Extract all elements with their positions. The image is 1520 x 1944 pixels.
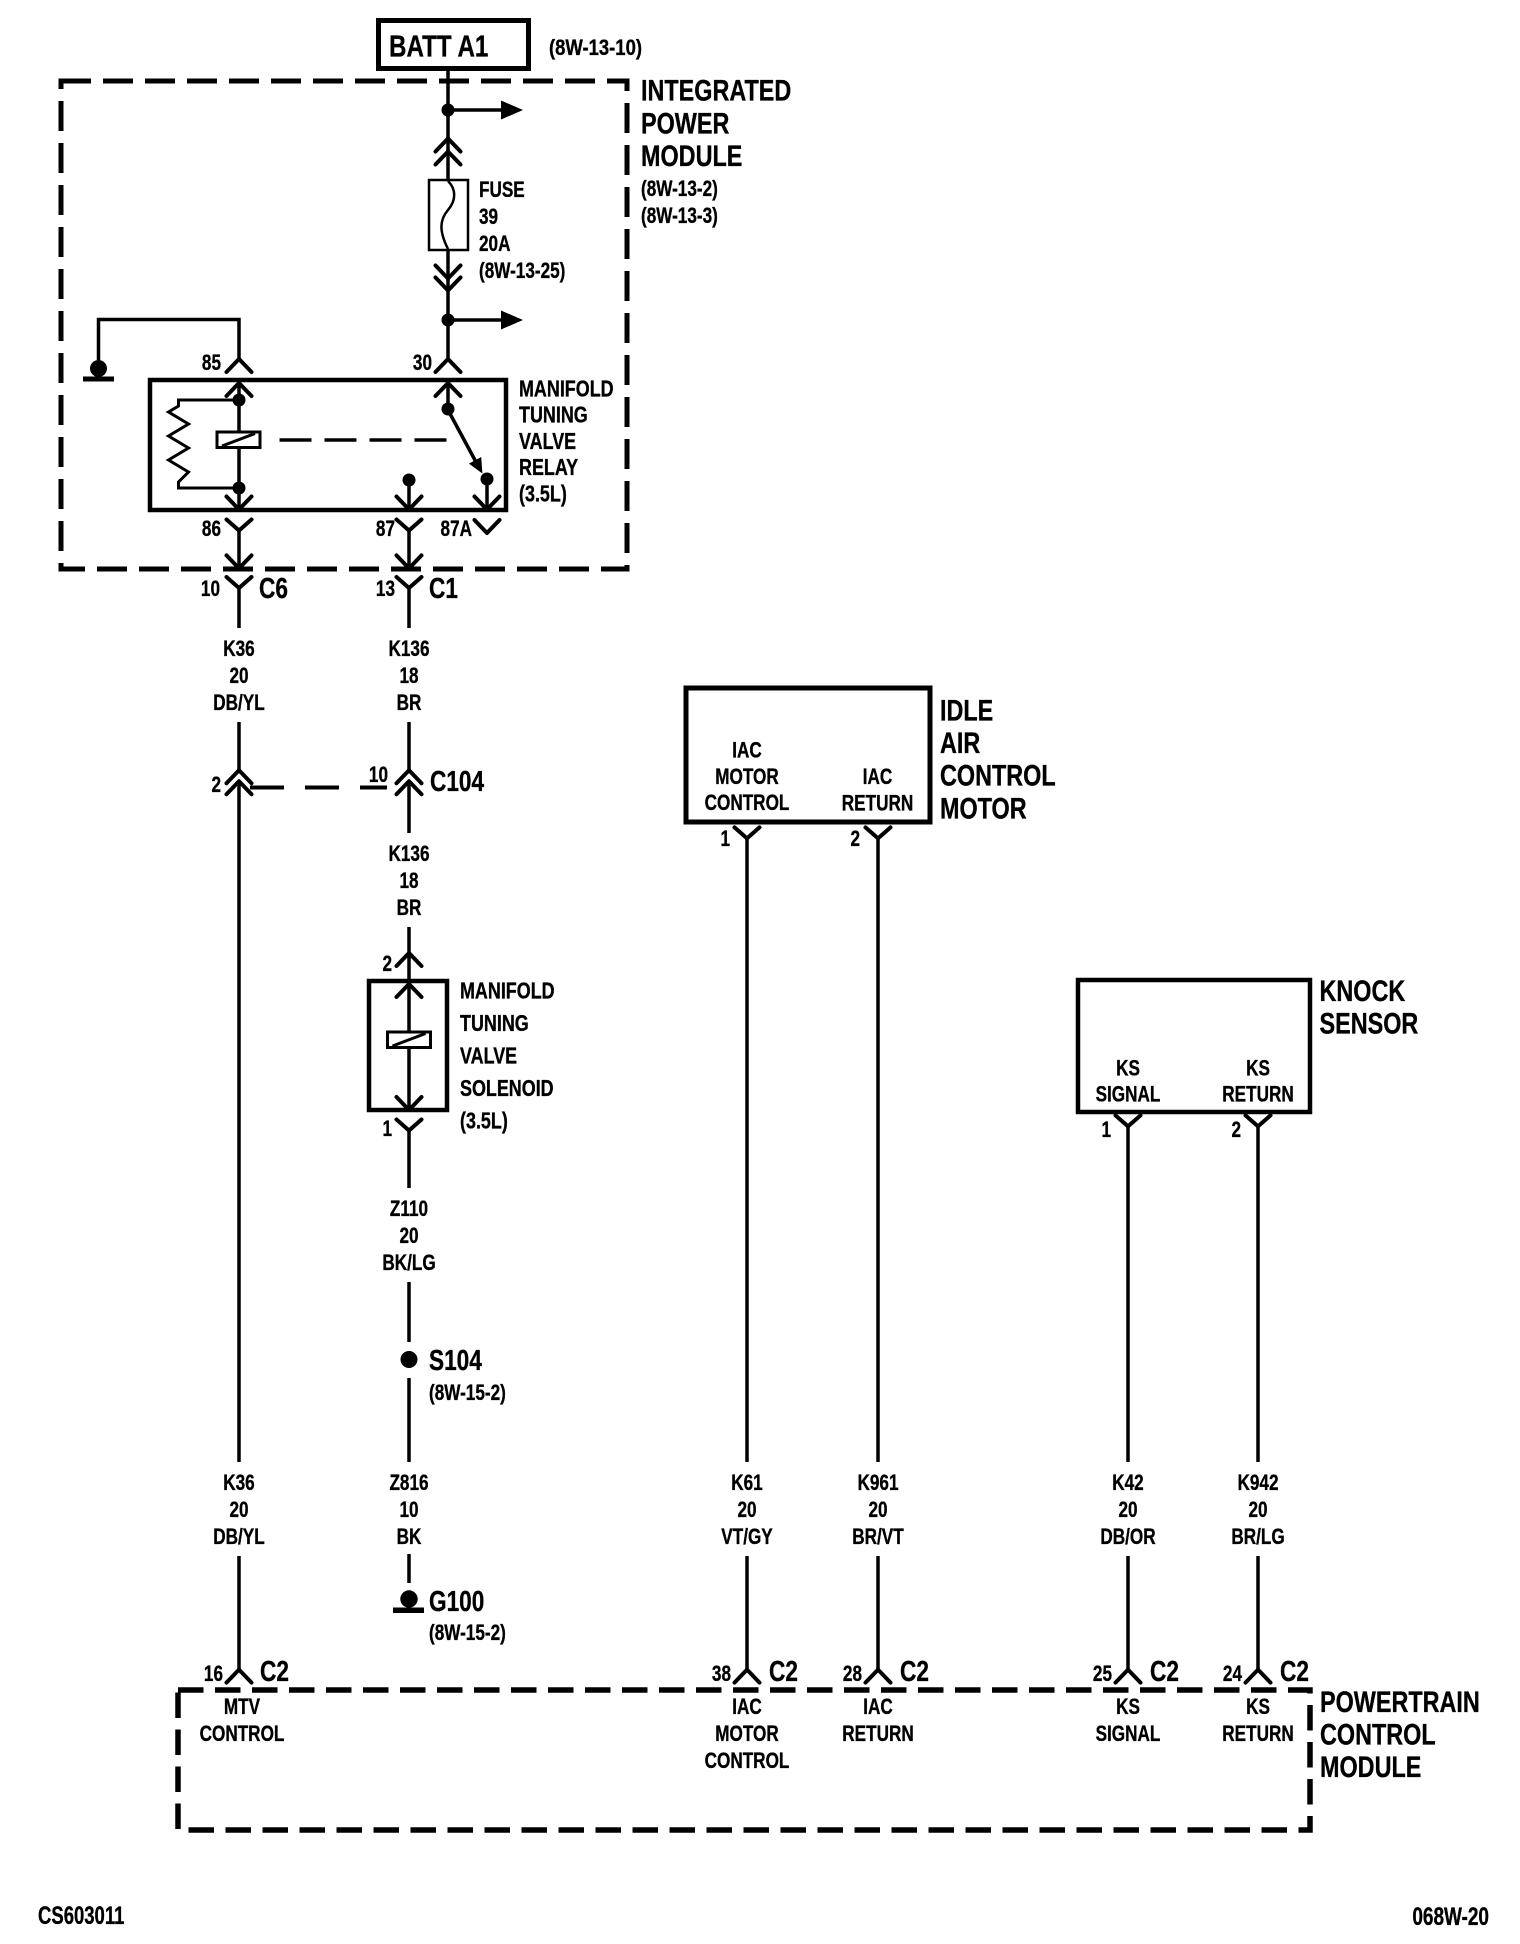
svg-text:BK/LG: BK/LG <box>382 1251 435 1276</box>
svg-text:IAC: IAC <box>863 1695 893 1720</box>
svg-text:(8W-13-25): (8W-13-25) <box>479 259 565 284</box>
svg-text:IAC: IAC <box>732 739 762 764</box>
svg-text:S104: S104 <box>429 1343 482 1376</box>
svg-text:BK: BK <box>397 1525 422 1550</box>
svg-text:CS603011: CS603011 <box>38 1901 124 1929</box>
svg-text:C2: C2 <box>1150 1654 1179 1687</box>
svg-text:(8W-13-3): (8W-13-3) <box>641 204 718 229</box>
svg-text:G100: G100 <box>429 1584 484 1617</box>
svg-text:IDLE: IDLE <box>940 694 993 727</box>
svg-text:(3.5L): (3.5L) <box>460 1108 508 1134</box>
svg-text:POWER: POWER <box>641 107 729 140</box>
svg-text:TUNING: TUNING <box>519 403 588 429</box>
svg-text:87: 87 <box>376 517 395 542</box>
svg-text:CONTROL: CONTROL <box>705 791 790 816</box>
svg-text:BR: BR <box>397 691 422 716</box>
svg-text:K61: K61 <box>731 1471 762 1496</box>
svg-text:(8W-13-2): (8W-13-2) <box>641 177 718 202</box>
svg-text:10: 10 <box>399 1498 418 1523</box>
svg-text:RETURN: RETURN <box>842 1722 913 1747</box>
svg-text:VT/GY: VT/GY <box>721 1525 772 1550</box>
svg-text:K942: K942 <box>1237 1471 1278 1496</box>
svg-text:2: 2 <box>211 773 221 798</box>
svg-text:13: 13 <box>376 577 395 602</box>
svg-text:K136: K136 <box>388 842 429 867</box>
svg-text:MOTOR: MOTOR <box>715 1722 779 1747</box>
svg-text:20: 20 <box>1248 1498 1267 1523</box>
svg-text:C2: C2 <box>1280 1654 1309 1687</box>
svg-text:Z110: Z110 <box>390 1197 428 1222</box>
svg-text:FUSE: FUSE <box>479 178 525 203</box>
svg-text:RETURN: RETURN <box>842 791 913 816</box>
svg-text:20: 20 <box>229 664 248 689</box>
svg-text:KS: KS <box>1246 1057 1270 1082</box>
svg-text:CONTROL: CONTROL <box>200 1722 285 1747</box>
svg-text:MANIFOLD: MANIFOLD <box>519 376 614 402</box>
svg-text:10: 10 <box>369 763 388 788</box>
svg-text:SIGNAL: SIGNAL <box>1096 1722 1161 1747</box>
svg-text:RETURN: RETURN <box>1222 1082 1293 1107</box>
svg-text:18: 18 <box>399 664 418 689</box>
svg-text:86: 86 <box>202 517 221 542</box>
svg-text:1: 1 <box>382 1117 392 1142</box>
svg-text:VALVE: VALVE <box>519 429 576 455</box>
svg-text:KNOCK: KNOCK <box>1320 974 1406 1007</box>
svg-text:DB/YL: DB/YL <box>213 691 264 716</box>
svg-text:(8W-15-2): (8W-15-2) <box>429 1381 506 1406</box>
svg-text:2: 2 <box>850 827 860 852</box>
svg-text:INTEGRATED: INTEGRATED <box>641 74 791 107</box>
svg-text:39: 39 <box>479 205 498 230</box>
svg-text:BR: BR <box>397 896 422 921</box>
svg-text:2: 2 <box>1231 1118 1241 1143</box>
svg-text:K42: K42 <box>1112 1471 1143 1496</box>
svg-text:K36: K36 <box>223 637 254 662</box>
svg-text:SIGNAL: SIGNAL <box>1096 1082 1161 1107</box>
svg-text:DB/OR: DB/OR <box>1100 1525 1155 1550</box>
svg-text:16: 16 <box>204 1662 223 1687</box>
svg-text:20A: 20A <box>479 232 510 257</box>
svg-text:BATT A1: BATT A1 <box>389 29 488 64</box>
svg-text:20: 20 <box>868 1498 887 1523</box>
svg-text:068W-20: 068W-20 <box>1412 1902 1489 1930</box>
svg-text:10: 10 <box>201 577 220 602</box>
svg-text:MOTOR: MOTOR <box>940 792 1027 825</box>
svg-text:MODULE: MODULE <box>641 139 742 172</box>
svg-text:VALVE: VALVE <box>460 1043 517 1069</box>
svg-text:RELAY: RELAY <box>519 455 578 481</box>
svg-text:38: 38 <box>712 1662 731 1687</box>
svg-text:RETURN: RETURN <box>1222 1722 1293 1747</box>
svg-text:DB/YL: DB/YL <box>213 1525 264 1550</box>
svg-text:24: 24 <box>1223 1662 1242 1687</box>
svg-text:KS: KS <box>1116 1057 1140 1082</box>
svg-text:2: 2 <box>382 952 392 977</box>
svg-text:K136: K136 <box>388 637 429 662</box>
svg-text:KS: KS <box>1246 1695 1270 1720</box>
svg-text:MTV: MTV <box>224 1695 261 1720</box>
svg-text:Z816: Z816 <box>389 1471 428 1496</box>
svg-text:BR/LG: BR/LG <box>1231 1525 1284 1550</box>
svg-text:25: 25 <box>1093 1662 1112 1687</box>
svg-text:POWERTRAIN: POWERTRAIN <box>1320 1685 1480 1718</box>
svg-text:(8W-15-2): (8W-15-2) <box>429 1621 506 1646</box>
svg-text:C2: C2 <box>260 1654 289 1687</box>
svg-text:CONTROL: CONTROL <box>705 1749 790 1774</box>
svg-text:KS: KS <box>1116 1695 1140 1720</box>
svg-text:1: 1 <box>1101 1118 1111 1143</box>
svg-text:CONTROL: CONTROL <box>940 759 1056 792</box>
svg-text:1: 1 <box>720 827 730 852</box>
svg-text:20: 20 <box>737 1498 756 1523</box>
svg-text:20: 20 <box>399 1224 418 1249</box>
svg-text:K36: K36 <box>223 1471 254 1496</box>
svg-text:IAC: IAC <box>732 1695 762 1720</box>
svg-text:TUNING: TUNING <box>460 1011 529 1037</box>
svg-text:MOTOR: MOTOR <box>715 765 779 790</box>
svg-text:20: 20 <box>229 1498 248 1523</box>
svg-text:AIR: AIR <box>940 726 980 759</box>
svg-text:C104: C104 <box>430 764 485 797</box>
svg-text:MODULE: MODULE <box>1320 1750 1421 1783</box>
svg-text:30: 30 <box>413 351 432 376</box>
svg-text:MANIFOLD: MANIFOLD <box>460 978 555 1004</box>
svg-text:K961: K961 <box>857 1471 898 1496</box>
svg-text:C2: C2 <box>769 1654 798 1687</box>
svg-text:SENSOR: SENSOR <box>1320 1007 1419 1040</box>
svg-text:IAC: IAC <box>863 765 893 790</box>
svg-text:BR/VT: BR/VT <box>852 1525 903 1550</box>
svg-text:C1: C1 <box>429 571 458 604</box>
svg-text:85: 85 <box>202 351 221 376</box>
svg-text:87A: 87A <box>441 517 472 542</box>
svg-text:18: 18 <box>399 869 418 894</box>
svg-text:28: 28 <box>843 1662 862 1687</box>
svg-text:C6: C6 <box>259 571 288 604</box>
svg-text:20: 20 <box>1118 1498 1137 1523</box>
svg-text:CONTROL: CONTROL <box>1320 1718 1436 1751</box>
svg-text:C2: C2 <box>900 1654 929 1687</box>
svg-text:(8W-13-10): (8W-13-10) <box>549 37 642 61</box>
svg-text:SOLENOID: SOLENOID <box>460 1076 554 1102</box>
svg-text:(3.5L): (3.5L) <box>519 481 567 507</box>
